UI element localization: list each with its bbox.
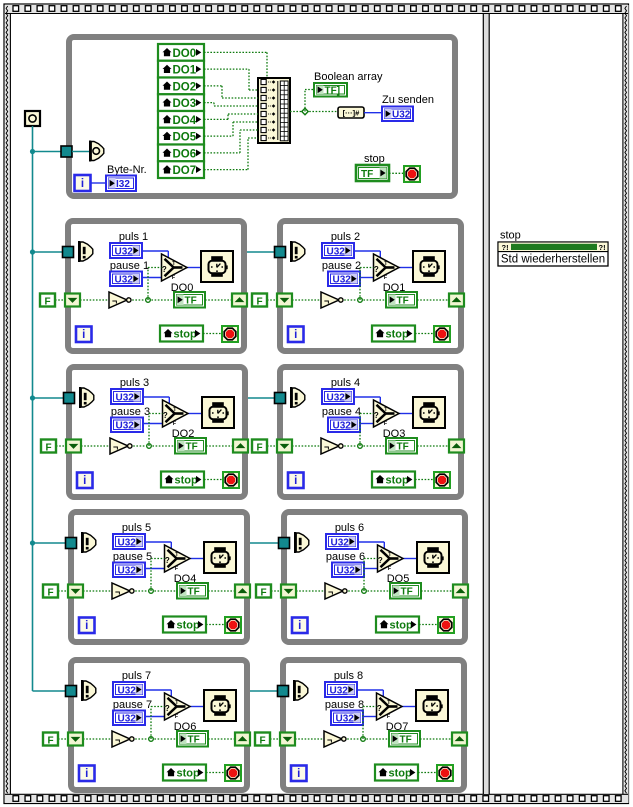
svg-text:U32: U32 (330, 685, 349, 696)
svg-text:U32: U32 (115, 246, 134, 257)
svg-text:TF: TF (186, 442, 198, 453)
svg-text:U32: U32 (392, 110, 411, 121)
svg-text:stop: stop (386, 329, 410, 341)
svg-text:i: i (85, 768, 88, 780)
svg-text:i: i (297, 768, 300, 780)
svg-text:TF: TF (361, 169, 373, 180)
svg-text:TF]: TF] (325, 86, 341, 97)
svg-text:¬: ¬ (328, 587, 333, 597)
svg-text:TF: TF (397, 296, 409, 307)
svg-text:F: F (388, 566, 391, 572)
svg-text:TF: TF (188, 735, 200, 746)
svg-text:¬: ¬ (115, 735, 120, 745)
svg-text:?: ? (377, 704, 382, 713)
svg-text:puls 6: puls 6 (335, 522, 364, 534)
svg-text:pause 3: pause 3 (111, 406, 150, 418)
svg-text:pause 7: pause 7 (113, 699, 152, 711)
svg-text:F: F (175, 566, 178, 572)
svg-text:puls 8: puls 8 (334, 670, 363, 682)
svg-text:?!: ?! (502, 243, 509, 252)
svg-text:F: F (387, 714, 390, 720)
svg-text:U32: U32 (115, 275, 134, 286)
svg-text:F: F (175, 714, 178, 720)
svg-text:¬: ¬ (327, 735, 332, 745)
svg-text:F: F (259, 736, 265, 747)
svg-text:DO5: DO5 (173, 132, 197, 144)
svg-text:i: i (294, 475, 297, 487)
svg-text:pause 2: pause 2 (322, 260, 361, 272)
svg-text:U32: U32 (336, 714, 355, 725)
svg-text:DO1: DO1 (173, 65, 197, 77)
svg-text:puls 1: puls 1 (119, 231, 148, 243)
svg-text:stop: stop (389, 768, 413, 780)
svg-text:stop: stop (174, 329, 198, 341)
svg-text:U32: U32 (333, 275, 352, 286)
svg-text:stop: stop (177, 768, 201, 780)
svg-text:¬: ¬ (324, 296, 329, 306)
svg-text:U32: U32 (327, 246, 346, 257)
svg-text:stop: stop (177, 620, 201, 632)
svg-text:puls 7: puls 7 (122, 670, 151, 682)
svg-text:U32: U32 (333, 421, 352, 432)
svg-text:?: ? (374, 411, 379, 420)
svg-text:stop: stop (500, 230, 521, 242)
svg-text:¬: ¬ (113, 442, 118, 452)
svg-text:[···]#: [···]# (343, 108, 360, 117)
svg-text:i: i (83, 475, 86, 487)
svg-text:DO6: DO6 (173, 148, 197, 160)
svg-text:TF: TF (188, 587, 200, 598)
svg-text:F: F (256, 297, 262, 308)
svg-text:¬: ¬ (324, 442, 329, 452)
svg-text:F: F (384, 275, 387, 281)
svg-text:Byte-Nr.: Byte-Nr. (107, 164, 147, 176)
svg-text:puls 5: puls 5 (122, 522, 151, 534)
svg-text:stop: stop (390, 620, 414, 632)
svg-text:F: F (173, 421, 176, 427)
svg-text:F: F (47, 588, 53, 599)
svg-text:?: ? (165, 704, 170, 713)
svg-text:F: F (256, 443, 262, 454)
svg-text:?: ? (374, 265, 379, 274)
svg-text:stop: stop (175, 475, 199, 487)
svg-text:pause 6: pause 6 (326, 551, 365, 563)
svg-text:TF: TF (400, 735, 412, 746)
svg-text:U32: U32 (331, 537, 350, 548)
svg-text:F: F (44, 297, 50, 308)
svg-text:Zu senden: Zu senden (382, 94, 434, 106)
svg-text:?: ? (165, 556, 170, 565)
svg-text:TF: TF (397, 442, 409, 453)
svg-text:F: F (384, 421, 387, 427)
svg-text:i: i (82, 329, 85, 341)
svg-text:DO0: DO0 (173, 48, 197, 60)
svg-text:pause 5: pause 5 (113, 551, 152, 563)
svg-text:U32: U32 (116, 392, 135, 403)
svg-text:Boolean array: Boolean array (314, 71, 383, 83)
svg-text:U32: U32 (118, 566, 137, 577)
svg-text:DO4: DO4 (173, 115, 197, 127)
svg-text:DO3: DO3 (173, 98, 197, 110)
svg-text:DO2: DO2 (173, 81, 197, 93)
svg-text:F: F (47, 736, 53, 747)
svg-text:puls 2: puls 2 (331, 231, 360, 243)
svg-text:pause 4: pause 4 (322, 406, 361, 418)
svg-text:DO7: DO7 (173, 165, 197, 177)
svg-text:F: F (172, 275, 175, 281)
svg-text:U32: U32 (118, 537, 137, 548)
svg-text:¬: ¬ (112, 296, 117, 306)
svg-text:TF: TF (401, 587, 413, 598)
svg-text:F: F (45, 443, 51, 454)
svg-text:i: i (81, 178, 84, 190)
svg-text:?!: ?! (599, 243, 606, 252)
svg-text:?: ? (378, 556, 383, 565)
svg-text:i: i (85, 620, 88, 632)
svg-text:U32: U32 (327, 392, 346, 403)
svg-text:?: ? (162, 265, 167, 274)
svg-text:I32: I32 (116, 179, 130, 190)
svg-text:U32: U32 (118, 714, 137, 725)
svg-text:?: ? (163, 411, 168, 420)
svg-text:F: F (260, 588, 266, 599)
svg-text:i: i (294, 329, 297, 341)
svg-text:pause 1: pause 1 (110, 260, 149, 272)
svg-text:pause 8: pause 8 (325, 699, 364, 711)
svg-text:puls 3: puls 3 (120, 377, 149, 389)
svg-text:stop: stop (386, 475, 410, 487)
svg-text:puls 4: puls 4 (331, 377, 360, 389)
svg-text:stop: stop (364, 153, 385, 165)
svg-text:¬: ¬ (115, 587, 120, 597)
svg-text:U32: U32 (337, 566, 356, 577)
svg-text:Std wiederherstellen: Std wiederherstellen (501, 254, 605, 266)
svg-text:U32: U32 (116, 421, 135, 432)
svg-text:i: i (298, 620, 301, 632)
svg-text:TF: TF (185, 296, 197, 307)
svg-text:U32: U32 (118, 685, 137, 696)
